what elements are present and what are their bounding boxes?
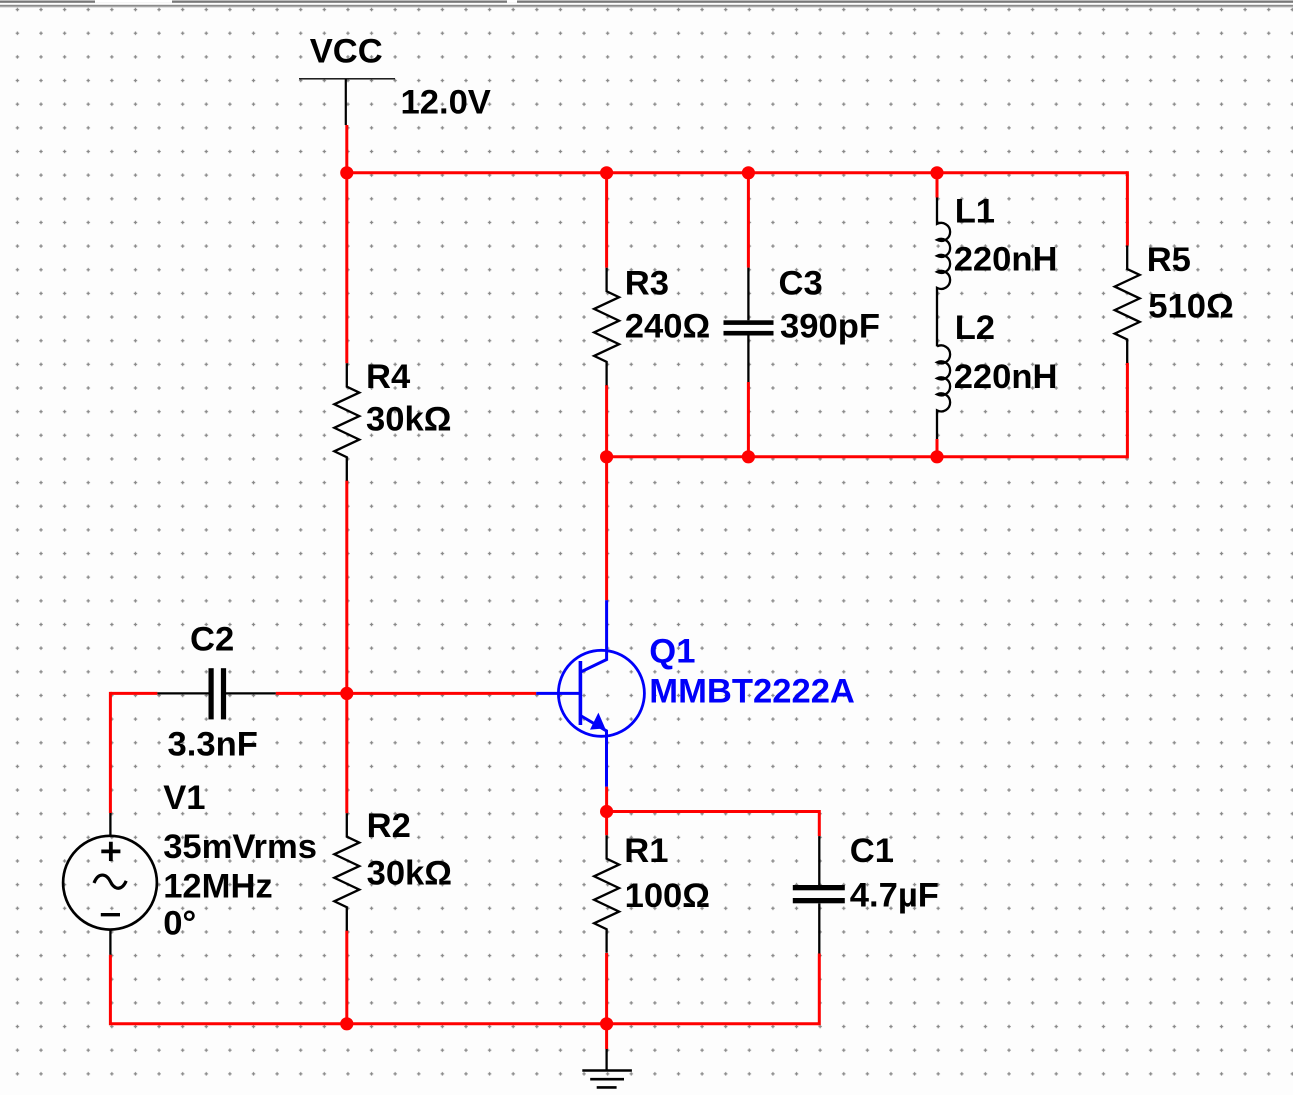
transistor Q1 <box>536 600 644 786</box>
svg-text:220nH: 220nH <box>954 240 1058 278</box>
svg-text:0°: 0° <box>163 905 196 943</box>
power VCC symbol <box>299 79 395 125</box>
svg-text:VCC: VCC <box>310 33 383 71</box>
wire R4 top feed <box>345 173 348 363</box>
svg-text:MMBT2222A: MMBT2222A <box>649 673 855 711</box>
resistor R3 <box>594 268 619 386</box>
svg-text:220nH: 220nH <box>954 358 1058 396</box>
wire C1 bottom <box>818 954 821 1026</box>
capacitor C2 <box>157 668 275 719</box>
inductor L1 <box>937 198 950 347</box>
junction ground rail R2 <box>340 1017 353 1030</box>
wire C1 top <box>818 810 821 836</box>
svg-text:C3: C3 <box>779 265 823 303</box>
svg-text:C1: C1 <box>850 832 894 870</box>
svg-text:R2: R2 <box>367 807 411 845</box>
junction lower rail L2 <box>930 450 943 463</box>
wire R2 bottom to ground rail <box>345 931 348 1024</box>
resistor R5 <box>1115 246 1140 364</box>
junction base node <box>340 687 353 700</box>
wire L2 bottom <box>936 439 939 457</box>
top scrollbar strip <box>0 0 1293 2</box>
svg-text:L2: L2 <box>955 309 995 347</box>
wire C2 right <box>276 692 347 695</box>
capacitor C1 <box>793 836 845 953</box>
wire ground stem red <box>605 1024 608 1049</box>
junction rail L1 <box>930 166 943 179</box>
inductor L2 <box>937 345 950 439</box>
svg-text:12MHz: 12MHz <box>163 868 273 906</box>
svg-text:V1: V1 <box>163 779 205 817</box>
wire base from divider node <box>347 692 536 695</box>
wire ground rail <box>110 1022 819 1025</box>
wire L1 top <box>936 173 939 198</box>
junction rail C3 <box>742 166 755 179</box>
svg-text:240Ω: 240Ω <box>625 307 710 345</box>
svg-text:R1: R1 <box>624 832 668 870</box>
wire emitter node to C1 <box>607 810 820 813</box>
wire right rail down to R5 <box>1126 171 1129 245</box>
capacitor C3 <box>724 268 774 382</box>
wire VCC to top rail <box>345 125 348 174</box>
wire R1 bottom <box>605 953 608 1024</box>
wire emitter to node <box>605 787 608 836</box>
junction emitter node <box>600 805 613 818</box>
wire R4 bottom to base node <box>345 481 348 814</box>
resistor R4 <box>334 363 359 481</box>
svg-text:Q1: Q1 <box>649 633 695 671</box>
wire C2 left <box>110 692 157 695</box>
svg-text:12.0V: 12.0V <box>401 83 491 121</box>
wire V1 top <box>109 692 112 813</box>
svg-text:R5: R5 <box>1147 241 1191 279</box>
wire V1 bottom <box>109 955 112 1026</box>
resistor R2 <box>334 813 359 931</box>
ground <box>582 1049 632 1087</box>
svg-text:3.3nF: 3.3nF <box>168 726 258 764</box>
junction rail R3 <box>600 166 613 179</box>
wire collector feed <box>605 457 608 601</box>
svg-text:L1: L1 <box>955 193 995 231</box>
svg-text:30kΩ: 30kΩ <box>366 401 451 439</box>
wire top rail <box>345 171 1127 174</box>
svg-text:C2: C2 <box>190 621 234 659</box>
wire R3 top <box>605 173 608 268</box>
wire lower rail <box>607 455 1128 458</box>
junction VCC rail R4 <box>340 166 353 179</box>
svg-text:R4: R4 <box>366 358 411 396</box>
wire R5 bottom to lower rail <box>1126 363 1129 459</box>
junction lower rail C3 <box>742 450 755 463</box>
junction lower rail R3 <box>600 450 613 463</box>
wire C3 top <box>747 173 750 268</box>
svg-text:390pF: 390pF <box>780 307 880 345</box>
svg-text:30kΩ: 30kΩ <box>367 855 452 893</box>
svg-text:100Ω: 100Ω <box>625 877 710 915</box>
svg-text:35mVrms: 35mVrms <box>163 828 317 866</box>
wire R3 bottom <box>605 385 608 457</box>
junction ground rail R1 <box>600 1017 613 1030</box>
resistor R1 <box>594 835 619 953</box>
svg-text:R3: R3 <box>625 265 669 303</box>
svg-text:510Ω: 510Ω <box>1148 288 1233 326</box>
svg-text:4.7µF: 4.7µF <box>850 877 939 915</box>
source V1 <box>63 813 157 955</box>
wire C3 bottom <box>747 382 750 457</box>
